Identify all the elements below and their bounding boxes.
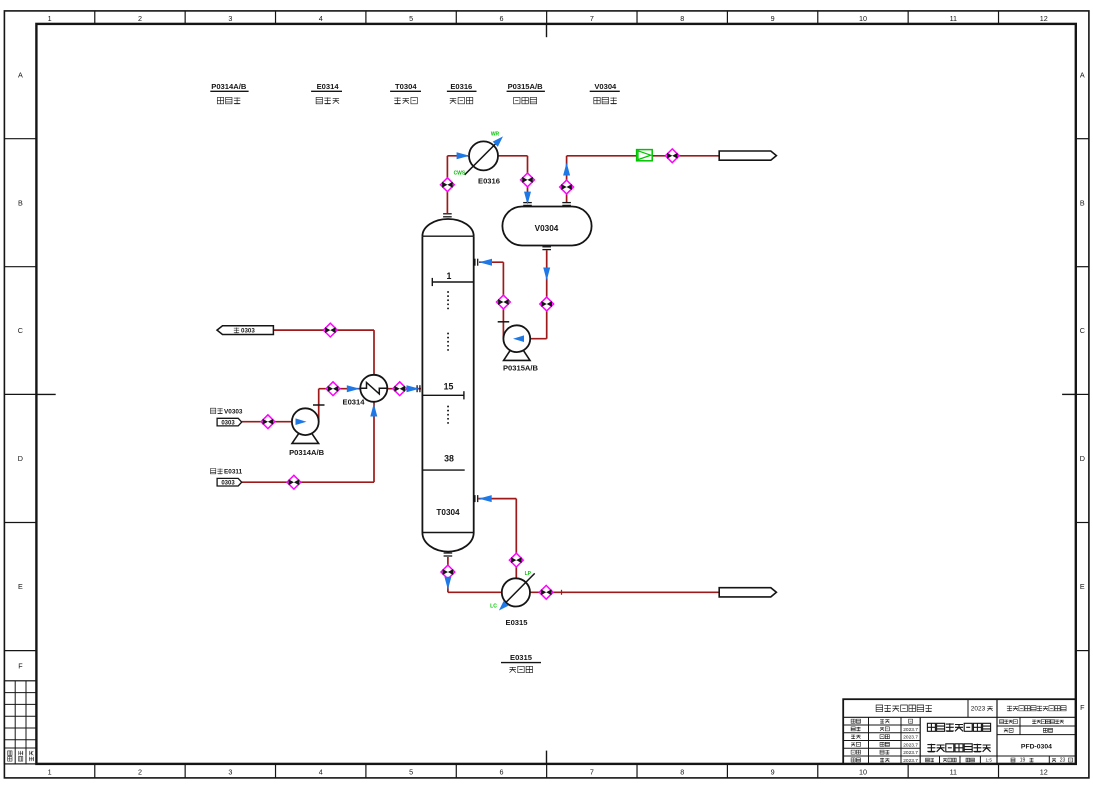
svg-text:P0314A/B: P0314A/B — [289, 448, 325, 457]
svg-text:23: 23 — [1060, 758, 1066, 764]
svg-text:F: F — [18, 662, 23, 671]
svg-text:2023.7: 2023.7 — [903, 758, 918, 764]
wire reflux into column — [479, 261, 503, 263]
svg-text:10: 10 — [859, 767, 867, 776]
flow arrow into column feed — [407, 385, 420, 392]
outlet flag bottom product — [719, 588, 776, 597]
svg-text:E0314: E0314 — [343, 398, 366, 407]
equipment label T0304 — [390, 82, 421, 104]
svg-text:0303: 0303 — [221, 481, 235, 487]
flow arrow return to column — [479, 495, 492, 502]
wire up to E0314 bottom — [373, 402, 375, 483]
svg-text:5: 5 — [409, 14, 413, 23]
svg-text:1: 1 — [48, 767, 52, 776]
svg-text:B: B — [1080, 198, 1085, 207]
svg-text:8: 8 — [680, 14, 684, 23]
svg-text:7: 7 — [590, 14, 594, 23]
svg-text:9: 9 — [771, 14, 775, 23]
valve reboiler return — [509, 553, 523, 567]
preheater E0314 — [343, 375, 388, 407]
outlet flag to 0303 — [217, 326, 273, 335]
wire P0314 discharge riser — [318, 389, 320, 422]
svg-text:E0314: E0314 — [317, 82, 340, 91]
svg-text:A: A — [1080, 70, 1085, 79]
svg-text:5: 5 — [409, 767, 413, 776]
svg-text:T0304: T0304 — [436, 508, 460, 517]
svg-text:2023.7: 2023.7 — [903, 735, 918, 741]
svg-text:12: 12 — [1040, 767, 1048, 776]
svg-text:1: 1 — [447, 271, 452, 281]
svg-text:7: 7 — [590, 767, 594, 776]
valve V0304 vapor — [560, 180, 574, 194]
svg-text:CWS: CWS — [454, 171, 466, 177]
valve E0314 inlet — [326, 382, 340, 396]
valve E0311 feed — [287, 475, 301, 489]
wire return into column — [479, 498, 517, 500]
svg-text:E: E — [18, 582, 23, 591]
valve bottoms product — [539, 585, 553, 599]
svg-text:D: D — [18, 454, 23, 463]
svg-text:4: 4 — [319, 14, 323, 23]
valve E0316 outlet — [521, 173, 535, 187]
svg-text:15: 15 — [444, 381, 454, 391]
flow arrow into E0314 — [347, 385, 360, 392]
wire pump to E0314 — [319, 388, 361, 390]
equipment label E0315 — [501, 653, 541, 673]
svg-text:8: 8 — [680, 767, 684, 776]
wire overhead to E0316 — [447, 155, 470, 157]
svg-text:C: C — [1080, 326, 1085, 335]
svg-text:1:5: 1:5 — [986, 758, 993, 763]
svg-text:2023.7: 2023.7 — [903, 727, 918, 733]
svg-text:P0315A/B: P0315A/B — [508, 82, 544, 91]
inlet flag from E0311 — [211, 469, 243, 487]
valve V0303 feed — [261, 415, 275, 429]
valve column bottoms — [441, 565, 455, 579]
wire riser to mixer — [567, 155, 637, 157]
svg-text:11: 11 — [950, 767, 957, 776]
wire mixer to outlet flag — [652, 155, 719, 157]
pump P0315A/B — [498, 322, 539, 373]
utility label CWS — [454, 171, 466, 177]
svg-text:F: F — [1080, 703, 1085, 712]
svg-text:11: 11 — [950, 14, 957, 23]
valve reflux discharge — [497, 295, 511, 309]
wire down to E0314 shell — [373, 330, 375, 375]
svg-text:6: 6 — [499, 14, 503, 23]
wire E0314 to column feed — [387, 388, 421, 390]
wire E0316 to corner — [498, 155, 528, 157]
wire column overhead riser — [446, 156, 448, 213]
utility label CWR — [491, 131, 500, 137]
utility label LC — [490, 604, 497, 610]
svg-text:19: 19 — [1020, 758, 1026, 764]
wire to pump P0315 suction — [530, 338, 547, 340]
svg-text:1: 1 — [48, 14, 52, 23]
wire V0304 bottom down — [546, 250, 548, 338]
wire E0314 shell outlet — [273, 329, 374, 331]
equipment label E0314 — [311, 82, 342, 104]
svg-text:E0315: E0315 — [506, 618, 529, 627]
valve E0314 shell outlet — [323, 323, 337, 337]
svg-text:38: 38 — [444, 454, 454, 464]
reboiler E0315 — [499, 573, 535, 626]
flow arrow reflux to column — [479, 259, 492, 266]
svg-text:10: 10 — [859, 14, 867, 23]
svg-text:2023: 2023 — [971, 706, 986, 713]
flow arrow vapor up — [563, 163, 570, 176]
svg-text:P0314A/B: P0314A/B — [211, 82, 247, 91]
svg-text:2: 2 — [138, 767, 142, 776]
svg-text:C: C — [18, 326, 23, 335]
flow arrow into E0316 — [457, 152, 470, 159]
svg-text:4: 4 — [319, 767, 323, 776]
svg-text:9: 9 — [771, 767, 775, 776]
svg-text:E0311: E0311 — [224, 469, 243, 476]
svg-text:V0304: V0304 — [594, 82, 617, 91]
utility label LP — [525, 571, 532, 577]
inlet flag from V0303 — [211, 408, 243, 426]
outlet flag top product — [719, 151, 776, 160]
flow arrow into V0304 — [524, 192, 531, 205]
svg-text:LP: LP — [525, 571, 532, 577]
svg-text:3: 3 — [228, 14, 232, 23]
wire E0311 feed line — [242, 481, 374, 483]
svg-text:PFD-0304: PFD-0304 — [1021, 743, 1052, 750]
svg-text:V0304: V0304 — [535, 224, 559, 233]
equipment label V0304 — [590, 82, 620, 104]
condenser E0316 — [465, 136, 503, 185]
valve column feed — [393, 382, 407, 396]
equipment label E0316 — [447, 82, 477, 104]
pipe tick — [561, 590, 563, 595]
svg-text:E: E — [1080, 582, 1085, 591]
column T0304 — [417, 214, 478, 556]
svg-text:2023.7: 2023.7 — [903, 742, 918, 748]
svg-text:A: A — [18, 70, 23, 79]
wire V0303 feed to pump — [242, 421, 292, 423]
flow arrow bottoms down — [444, 577, 451, 590]
inline mixer (green) — [637, 150, 653, 161]
equipment label P0315A/B — [507, 82, 545, 104]
valve pump suction — [540, 297, 554, 311]
wire bottoms to E0315 — [448, 591, 502, 593]
svg-text:E0316: E0316 — [450, 82, 472, 91]
pump P0314A/B — [289, 405, 325, 457]
svg-text:WR: WR — [491, 131, 500, 137]
valve product line — [665, 149, 679, 163]
svg-text:0303: 0303 — [241, 328, 255, 335]
svg-text:E0316: E0316 — [478, 177, 500, 186]
svg-text:0303: 0303 — [221, 421, 235, 427]
svg-text:2: 2 — [138, 14, 142, 23]
svg-text:3: 3 — [228, 767, 232, 776]
equipment label P0314A/B — [210, 82, 248, 104]
svg-text:P0315A/B: P0315A/B — [503, 363, 539, 372]
svg-text:B: B — [18, 198, 23, 207]
svg-text:T0304: T0304 — [395, 82, 417, 91]
svg-text:D: D — [1080, 454, 1085, 463]
svg-text:LC: LC — [490, 604, 497, 610]
flow arrow E0311 up — [370, 404, 377, 417]
wire V0304 vapor riser — [566, 156, 568, 202]
flow arrow V0304 down — [543, 268, 550, 281]
wire P0315 discharge riser — [502, 262, 504, 339]
reflux drum V0304 — [502, 203, 591, 250]
svg-text:V0303: V0303 — [224, 408, 243, 415]
svg-text:12: 12 — [1040, 14, 1048, 23]
svg-text:6: 6 — [499, 767, 503, 776]
wire down into V0304 — [527, 156, 529, 202]
svg-text:E0315: E0315 — [510, 653, 533, 662]
wire E0315 return riser — [515, 499, 517, 579]
wire E0315 to outlet flag — [530, 591, 719, 593]
wire column bottoms down — [447, 557, 449, 592]
svg-text:2023.7: 2023.7 — [903, 750, 918, 756]
valve on overhead riser — [441, 178, 455, 192]
